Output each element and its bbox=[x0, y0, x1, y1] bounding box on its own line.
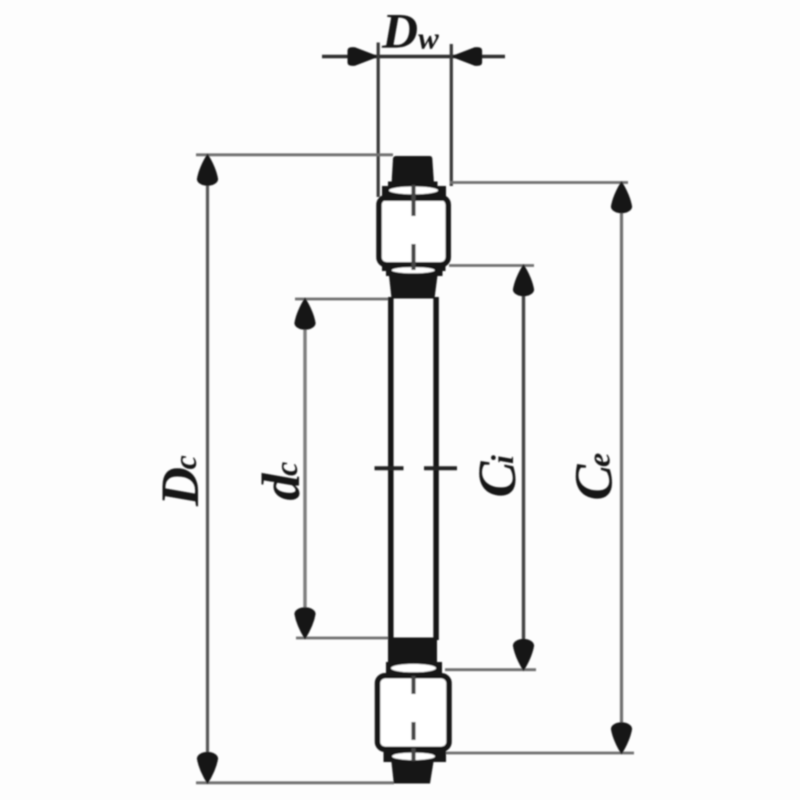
arrowhead dc down bbox=[294, 607, 315, 639]
arrowhead Dc down bbox=[197, 752, 218, 784]
arrowhead Ci up bbox=[513, 264, 534, 296]
dimension line dc bbox=[303, 302, 306, 635]
roller axis dash bottom 3 bbox=[411, 748, 415, 761]
leader line Dc top bbox=[196, 153, 393, 156]
arrowhead Dw right (pointing left) bbox=[451, 47, 483, 66]
arrowhead Ci down bbox=[513, 639, 534, 671]
arrowhead dc up bbox=[294, 298, 315, 330]
cage block below top roller bbox=[389, 276, 438, 299]
arrowhead Dw left (pointing right) bbox=[348, 47, 380, 66]
center tick left bbox=[375, 466, 404, 470]
cage lip above bottom roller bbox=[386, 662, 442, 673]
cage top block bbox=[392, 156, 435, 184]
extension line Dw left bbox=[377, 43, 380, 198]
roller top (needle roller cross-section) bbox=[379, 197, 448, 264]
dimension line Ci bbox=[522, 269, 525, 666]
white gap lens below top roller bbox=[392, 267, 435, 273]
leader line Ce top bbox=[450, 181, 628, 184]
cage bottom block bbox=[391, 760, 434, 784]
white gap lens above bottom roller bbox=[391, 664, 436, 672]
arrowhead Ce up bbox=[611, 181, 632, 213]
arrowhead Ce down bbox=[611, 722, 632, 754]
cage band below top roller bbox=[386, 266, 443, 276]
roller axis dash bottom 2 bbox=[411, 722, 415, 740]
leader line Ci bottom bbox=[445, 668, 536, 671]
dimension line Ce bbox=[620, 186, 623, 749]
cage lip below bottom roller bbox=[384, 749, 447, 762]
roller axis dash top 1 bbox=[411, 185, 415, 216]
roller bottom (needle roller cross-section) bbox=[378, 676, 450, 750]
shaft line left bbox=[388, 297, 394, 640]
cage top lip band bbox=[382, 186, 446, 201]
leader line Ci top bbox=[449, 264, 534, 267]
dimension line Dc bbox=[206, 158, 209, 780]
leader line Ce bottom bbox=[438, 752, 634, 755]
leader line dc bottom bbox=[296, 637, 392, 640]
center tick right bbox=[424, 466, 457, 470]
roller axis dash top 2 bbox=[411, 244, 415, 270]
arrowhead Dc up bbox=[197, 154, 218, 186]
white gap lens below bottom roller bbox=[392, 753, 435, 760]
cage block above bottom roller bbox=[388, 638, 437, 666]
extension line Dw right bbox=[450, 44, 453, 186]
leader line dc top bbox=[295, 298, 392, 301]
shaft line right bbox=[433, 297, 439, 640]
wire: Dw horizontal dimension line bbox=[322, 55, 505, 58]
leader line Dc bottom bbox=[196, 781, 394, 784]
white gap lens top bbox=[389, 187, 438, 195]
roller axis dash bottom 1 bbox=[411, 676, 415, 694]
